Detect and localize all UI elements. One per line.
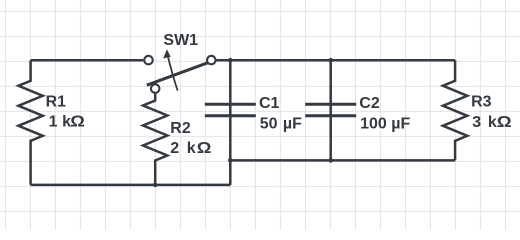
svg-text:Ω: Ω bbox=[70, 112, 85, 131]
junction node top C2 bbox=[328, 58, 333, 63]
resistor R1 bbox=[18, 60, 42, 185]
svg-text:2 k: 2 k bbox=[170, 140, 196, 157]
switch SW1 arrowhead bbox=[163, 49, 171, 58]
wire bottom (R1 bottom to riser) bbox=[31, 184, 231, 187]
junction node bottom R2 bbox=[153, 183, 158, 188]
svg-text:Ω: Ω bbox=[497, 112, 512, 130]
resistor R2 bbox=[143, 93, 167, 185]
svg-text:SW1: SW1 bbox=[163, 32, 198, 49]
capacitor C1 vertical wire bbox=[229, 60, 232, 160]
wire riser to bus bbox=[229, 160, 232, 185]
capacitor C2 plates bbox=[305, 104, 356, 116]
svg-text:100 µF: 100 µF bbox=[360, 116, 410, 133]
switch SW1 right terminal bbox=[207, 56, 216, 65]
capacitor C2 vertical wire bbox=[329, 60, 332, 160]
svg-text:R1: R1 bbox=[46, 94, 67, 111]
svg-text:50 µF: 50 µF bbox=[260, 116, 302, 133]
wire top-left (R1 top to switch left terminal) bbox=[31, 59, 144, 62]
svg-text:C2: C2 bbox=[359, 95, 380, 112]
wire bus bottom bbox=[230, 159, 455, 162]
svg-text:R2: R2 bbox=[170, 120, 191, 137]
svg-text:R3: R3 bbox=[471, 94, 492, 111]
switch SW1 pivot terminal bbox=[151, 84, 160, 93]
junction node bus C2 bbox=[328, 158, 333, 163]
junction node bus C1 bbox=[228, 158, 233, 163]
switch SW1 lever bbox=[147, 63, 208, 85]
junction node top C1 bbox=[228, 58, 233, 63]
switch SW1 left terminal bbox=[144, 56, 153, 65]
wire top (switch right terminal to R3) bbox=[216, 59, 455, 62]
svg-text:3 k: 3 k bbox=[472, 114, 497, 131]
switch SW1 motion arc bbox=[167, 54, 177, 90]
svg-text:Ω: Ω bbox=[197, 138, 212, 157]
capacitor C1 plates bbox=[205, 104, 256, 116]
svg-text:1 k: 1 k bbox=[49, 114, 72, 131]
svg-text:C1: C1 bbox=[259, 95, 280, 112]
resistor R3 bbox=[443, 60, 467, 160]
